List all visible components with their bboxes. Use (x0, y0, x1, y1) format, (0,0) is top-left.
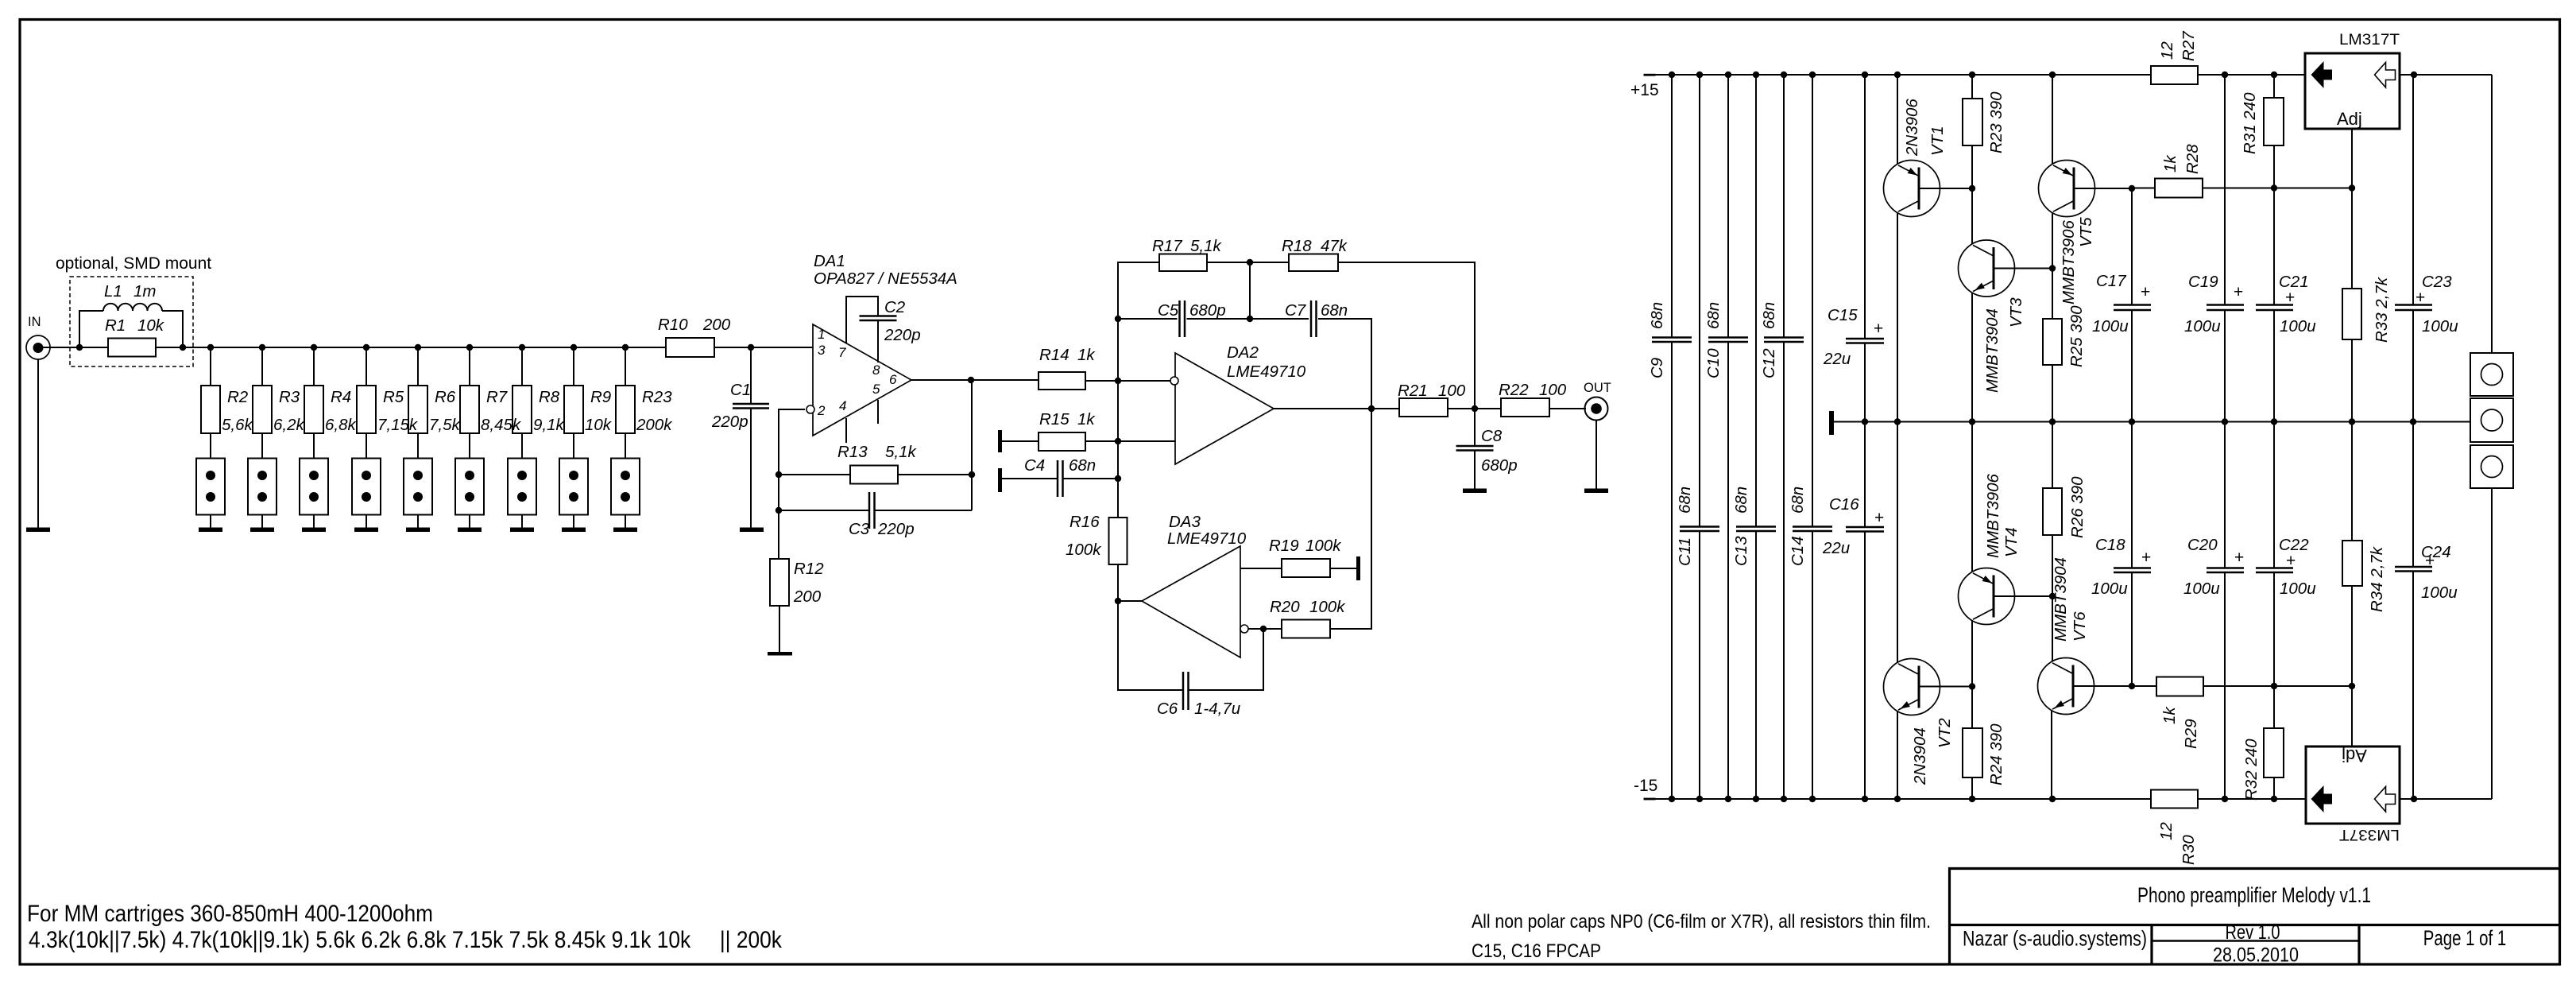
node +15 rail (2222, 72, 2228, 78)
svg-text:100u: 100u (2280, 317, 2316, 335)
node R4 top (311, 344, 317, 351)
svg-text:+: + (2415, 289, 2425, 307)
capacitor C18 (2131, 422, 2133, 568)
svg-text:R20: R20 (1270, 598, 1300, 616)
svg-text:R27: R27 (2180, 30, 2198, 61)
svg-text:C5: C5 (1158, 301, 1179, 320)
svg-text:R22: R22 (1499, 381, 1529, 399)
resistor R6 (408, 386, 427, 433)
node L1 right (180, 344, 186, 351)
wire R2 top lead (210, 347, 211, 386)
op-amp DA1 (813, 324, 911, 436)
svg-text:100u: 100u (2183, 580, 2220, 598)
svg-text:+: + (1874, 320, 1883, 338)
node R17 right (1247, 259, 1253, 266)
wire +15 rail (1644, 74, 1656, 76)
svg-text:Page 1 of 1: Page 1 of 1 (2423, 926, 2507, 950)
node mid rail (2222, 418, 2228, 425)
svg-text:+: + (1874, 509, 1884, 527)
svg-text:R7: R7 (486, 388, 509, 406)
node DA1 output (968, 377, 974, 383)
wire R5 top lead (366, 347, 367, 386)
node -15 rail (1809, 796, 1816, 802)
wire DA1 pin4 stub (845, 418, 847, 443)
node R13 right (969, 471, 975, 478)
node +15 rail (1969, 72, 1975, 78)
node C4 right (1115, 475, 1121, 482)
wire R9 to jumper (573, 433, 574, 458)
resistor R23 (390) (1971, 75, 1973, 99)
node VT1 base / R23 (1969, 185, 1975, 192)
resistor R21 (1399, 398, 1448, 417)
resistor R15 (1002, 440, 1039, 442)
node R7 top (466, 344, 473, 351)
svg-text:DA1: DA1 (814, 252, 845, 270)
wire LM317 Adj (2351, 129, 2353, 289)
capacitor C17 (2131, 188, 2133, 305)
node VT5 base / R28 (2129, 185, 2135, 192)
wire R3 top lead (261, 347, 263, 386)
node -15 rail (1725, 796, 1731, 802)
svg-text:R12: R12 (794, 560, 824, 578)
ground (IN) (26, 528, 50, 533)
svg-text:R2: R2 (227, 388, 249, 406)
node C1 (748, 344, 754, 351)
svg-text:OUT: OUT (1584, 381, 1611, 395)
svg-text:-15: -15 (1634, 777, 1657, 795)
wire jumper J1 to ground (210, 515, 211, 529)
node mid rail (2271, 418, 2277, 425)
svg-text:C17: C17 (2096, 272, 2127, 290)
resistor R10 (666, 338, 714, 357)
wire R23 to jumper (625, 433, 626, 458)
svg-text:R25 390: R25 390 (2067, 305, 2086, 367)
svg-text:R5: R5 (383, 388, 404, 406)
node +15 rail (1725, 72, 1731, 78)
resistor R8 (512, 386, 532, 433)
node R15 right (1115, 438, 1121, 444)
resistor R26 (390) (2052, 422, 2053, 489)
svg-text:100u: 100u (2422, 317, 2458, 335)
svg-text:100u: 100u (2421, 584, 2458, 602)
wire VT1 collector-emitter column (1897, 75, 1898, 165)
wire R8 top lead (521, 347, 523, 386)
capacitor C1 (750, 347, 752, 404)
wire R3 to jumper (261, 433, 263, 458)
svg-text:R4: R4 (331, 388, 351, 406)
svg-text:100u: 100u (2184, 317, 2221, 335)
svg-text:R19: R19 (1269, 537, 1299, 555)
svg-text:1-4,7u: 1-4,7u (1194, 700, 1240, 718)
svg-text:R10: R10 (658, 316, 688, 334)
svg-text:C2: C2 (884, 298, 906, 316)
wire jumper J9 to ground (625, 515, 626, 529)
svg-text:C6: C6 (1157, 700, 1178, 718)
wire C5/R17 junction vertical (1249, 262, 1251, 319)
svg-text:2N3906: 2N3906 (1903, 99, 1921, 157)
resistor R32 (240) (2273, 686, 2275, 728)
ground (R8) (510, 528, 534, 533)
svg-text:1k: 1k (1077, 410, 1096, 428)
svg-text:C9: C9 (1648, 358, 1666, 378)
node -15 rail (2049, 796, 2056, 802)
svg-text:Nazar (s-audio.systems): Nazar (s-audio.systems) (1963, 927, 2147, 951)
wire VT4 emitter down (1971, 621, 1973, 729)
svg-text:R29: R29 (2182, 719, 2200, 749)
svg-text:MMBT3906: MMBT3906 (2060, 219, 2078, 304)
capacitor C10 (1727, 75, 1729, 338)
svg-text:7: 7 (838, 345, 846, 360)
resistor R3 (253, 386, 272, 433)
wire main bus R1 to R10 (156, 347, 666, 348)
node VT4 base (2049, 593, 2056, 599)
ground (R7) (458, 528, 482, 533)
svg-text:680p: 680p (1481, 456, 1518, 475)
wire feedback left vertical (778, 409, 779, 559)
transistor VT4 (1959, 568, 2015, 625)
wire VT4 column (1971, 422, 1973, 572)
svg-text:R23: R23 (642, 388, 672, 406)
node R8 top (519, 344, 525, 351)
wire R23 to VT3 (1971, 145, 1973, 244)
node VT3 base (2049, 265, 2056, 271)
svg-text:Adj: Adj (2342, 746, 2367, 766)
ground (R5) (354, 528, 378, 533)
wire R29 to Adj net (2203, 685, 2352, 687)
svg-text:OPA827 / NE5534A: OPA827 / NE5534A (814, 269, 957, 288)
svg-text:1: 1 (818, 327, 825, 342)
capacitor C5 (1118, 318, 1178, 320)
op-amp DA3 (1142, 546, 1240, 657)
op-amp DA2 (1175, 353, 1274, 464)
svg-text:680p: 680p (1189, 301, 1226, 320)
wire VT1 base (1919, 188, 1972, 189)
svg-text:68n: 68n (1069, 456, 1096, 475)
svg-text:2N3904: 2N3904 (1911, 727, 1929, 785)
wire R34 to LM337 Adj (2351, 586, 2353, 746)
resistor R34 (2,7k) (2351, 422, 2353, 541)
node -15 rail (2271, 796, 2277, 802)
terminal bar C4 (998, 468, 1002, 492)
wire R5 to jumper (366, 433, 367, 458)
svg-text:100: 100 (1539, 381, 1567, 399)
wire DA1 pin7 up (845, 297, 847, 343)
svg-text:For MM cartriges 360-850mH 400: For MM cartriges 360-850mH 400-1200ohm (27, 901, 433, 927)
svg-text:5,1k: 5,1k (1190, 237, 1222, 255)
wire jumper J3 to ground (313, 515, 315, 529)
svg-text:C23: C23 (2422, 273, 2452, 291)
svg-text:100k: 100k (1309, 598, 1346, 616)
svg-text:VT3: VT3 (2007, 297, 2025, 328)
resistor R20 (1282, 620, 1330, 638)
svg-text:R30: R30 (2180, 835, 2198, 865)
ground (R9) (562, 528, 586, 533)
wire jumper J5 to ground (417, 515, 419, 529)
DA3 inverting input circle (1240, 625, 1248, 633)
svg-text:4.3k(10k||7.5k) 4.7k(10k||9.1k: 4.3k(10k||7.5k) 4.7k(10k||9.1k) 5.6k 6.2… (29, 927, 783, 953)
wire main input bus (40, 347, 108, 348)
wire VT6 emitter to -15 (2051, 711, 2052, 800)
node R3 top (259, 344, 265, 351)
node +15 rail (1862, 72, 1868, 78)
svg-text:+: + (2141, 549, 2151, 567)
svg-text:1m: 1m (133, 282, 156, 301)
node +15 rail (1669, 72, 1675, 78)
wire L1 left leg (79, 311, 80, 347)
node R2 top (207, 344, 214, 351)
wire R12 to ground (779, 606, 780, 652)
node mid rail (2129, 418, 2135, 425)
wire DA3 top input to R19 (1240, 568, 1282, 569)
capacitor C7 (1250, 318, 1309, 320)
wire VT6 base (2073, 685, 2132, 687)
svg-text:LME49710: LME49710 (1227, 363, 1306, 381)
svg-text:6: 6 (889, 372, 897, 387)
node C5 right (1247, 316, 1253, 322)
svg-text:+: + (2234, 549, 2244, 567)
wire R24 to -15 (1971, 777, 1973, 799)
wire R9 top lead (573, 347, 574, 386)
node Adj lower (2349, 683, 2355, 689)
svg-text:C18: C18 (2095, 536, 2125, 554)
svg-text:R32 240: R32 240 (2242, 739, 2261, 801)
node DA2 output (1368, 405, 1375, 412)
svg-text:220p: 220p (884, 326, 921, 344)
svg-text:C10: C10 (1704, 348, 1723, 378)
svg-text:R28: R28 (2183, 144, 2202, 174)
node -15 rail (1669, 796, 1675, 802)
wire main bus right of R10 (714, 347, 813, 348)
svg-text:22u: 22u (1823, 350, 1851, 368)
svg-text:R18: R18 (1282, 237, 1312, 255)
resistor R17 (1159, 254, 1207, 272)
node -15 rail (1862, 796, 1868, 802)
svg-text:C1: C1 (730, 381, 751, 399)
svg-text:C19: C19 (2188, 273, 2218, 291)
svg-text:DA2: DA2 (1227, 343, 1259, 362)
jumper J3 (300, 459, 328, 515)
svg-text:100: 100 (1438, 382, 1466, 400)
svg-text:10k: 10k (585, 416, 613, 434)
svg-text:C11: C11 (1676, 537, 1694, 566)
svg-text:68n: 68n (1704, 302, 1723, 329)
svg-text:68n: 68n (1760, 302, 1778, 329)
node mid rail (2410, 418, 2416, 425)
node DA3 output (1115, 598, 1121, 604)
resistor R18 (1289, 254, 1338, 272)
wire R28 to Adj net (2203, 188, 2352, 189)
wire LM317 out to right (2400, 74, 2492, 76)
wire jumper J4 to ground (366, 515, 367, 529)
wire VT4 base (1994, 595, 2052, 597)
wire OUT to ground (1595, 421, 1597, 489)
wire feedback right vertical (971, 380, 973, 510)
wire center vertical net (1117, 262, 1119, 518)
svg-text:Adj: Adj (2337, 109, 2362, 129)
svg-text:47k: 47k (1321, 237, 1348, 255)
svg-text:10k: 10k (137, 316, 165, 335)
DA1 inverting input circle (806, 405, 814, 413)
capacitor C2 (877, 296, 879, 316)
node L1 left (76, 344, 83, 351)
svg-text:DA3: DA3 (1169, 513, 1201, 531)
node -15 rail (1969, 796, 1975, 802)
svg-text:VT1: VT1 (1928, 126, 1947, 156)
node +15 rail (2271, 72, 2277, 78)
svg-text:+: + (2286, 552, 2296, 570)
terminal bar R15 (998, 430, 1002, 452)
svg-text:C14: C14 (1789, 536, 1807, 566)
capacitor C3 (779, 510, 869, 511)
jumper J8 (559, 459, 588, 515)
wire R14 to DA2 (1085, 380, 1170, 382)
node C3 left (776, 507, 782, 514)
capacitor C23 (2412, 75, 2414, 305)
resistor R5 (357, 386, 376, 433)
resistor R16 (1109, 518, 1127, 564)
wire jumper J2 to ground (261, 515, 263, 529)
wire DA1 output (911, 379, 1039, 381)
wire VT5 base (2074, 188, 2132, 189)
node VT2 base (1969, 683, 1975, 689)
resistor R1 (108, 339, 156, 357)
svg-text:R1: R1 (105, 316, 126, 335)
resistor R14 (1039, 372, 1085, 390)
svg-text:100k: 100k (1066, 541, 1102, 559)
svg-text:68n: 68n (1676, 487, 1694, 514)
resistor R23 (616, 386, 635, 433)
resistor R25 (390) (2043, 319, 2062, 365)
resistor R12 (770, 559, 789, 606)
svg-text:12: 12 (2158, 41, 2176, 60)
jumper J1 (196, 459, 225, 515)
wire R16 to DA3 node (1117, 564, 1119, 601)
node -15 rail (2222, 796, 2228, 802)
svg-text:R16: R16 (1069, 513, 1100, 531)
svg-text:4: 4 (839, 398, 846, 413)
transistor VT6 (2038, 658, 2094, 715)
resistor R2 (201, 386, 220, 433)
svg-text:6,8k: 6,8k (325, 416, 357, 434)
wire DA3 inv input to R20 (1248, 628, 1282, 630)
wire R22 to OUT (1549, 408, 1586, 409)
node mid rail (1862, 418, 1868, 425)
node -15 rail (1894, 796, 1901, 802)
svg-text:R6: R6 (435, 388, 456, 406)
wire VT2 base (1919, 686, 1972, 688)
resistor R28 (1k) (2132, 188, 2155, 189)
node R32 top (2271, 683, 2277, 689)
svg-text:All non polar caps NP0 (C6-fil: All non polar caps NP0 (C6-film or X7R),… (1472, 911, 1931, 933)
wire L1 right leg (162, 310, 184, 312)
capacitor C20 (2224, 422, 2226, 568)
wire VT5 emitter to R25 (2052, 213, 2053, 320)
svg-text:200: 200 (702, 316, 731, 334)
capacitor C4 (1002, 478, 1058, 479)
wire R7 top lead (469, 347, 470, 386)
jumper J9 (611, 459, 640, 515)
svg-text:2: 2 (817, 403, 826, 418)
resistor R9 (564, 386, 583, 433)
svg-text:R15: R15 (1039, 410, 1069, 428)
node R31 bottom (2271, 184, 2277, 191)
svg-text:5: 5 (872, 382, 880, 397)
node VT6 base / R29 (2129, 683, 2135, 689)
node +15 rail (2049, 72, 2056, 78)
node R23 top (622, 344, 629, 351)
node +15 rail (1781, 72, 1787, 78)
node mid rail (1969, 418, 1975, 425)
svg-text:R33 2,7k: R33 2,7k (2373, 276, 2391, 343)
resistor R4 (304, 386, 323, 433)
wire VT3 base (1994, 268, 2052, 269)
svg-text:VT4: VT4 (2002, 527, 2021, 557)
svg-text:+: + (2141, 283, 2150, 301)
wire R2 to jumper (210, 433, 211, 458)
transistor VT5 (2039, 161, 2095, 217)
svg-text:R17: R17 (1152, 237, 1183, 255)
svg-text:220p: 220p (877, 520, 915, 538)
ground (R6) (406, 528, 430, 533)
wire VT5 column top (2052, 75, 2053, 165)
wire IN to ground (37, 359, 39, 528)
svg-text:MMBT3904: MMBT3904 (1983, 308, 2002, 393)
svg-text:VT5: VT5 (2077, 217, 2095, 247)
svg-text:R13: R13 (837, 443, 868, 461)
capacitor C6 (1263, 629, 1264, 691)
svg-text:200k: 200k (636, 416, 673, 434)
resistor R22 (1501, 398, 1549, 417)
svg-text:68n: 68n (1732, 487, 1750, 514)
wire C7 down to output (1371, 319, 1372, 629)
capacitor C13 (1755, 75, 1757, 527)
svg-text:R8: R8 (539, 388, 560, 406)
title block frame (1948, 867, 2560, 870)
svg-text:1k: 1k (2161, 154, 2180, 173)
ground (C1) (740, 528, 764, 533)
svg-text:8: 8 (872, 363, 880, 378)
node C23 top (2411, 72, 2417, 78)
svg-text:C15, C16 FPCAP: C15, C16 FPCAP (1472, 940, 1601, 962)
svg-text:optional, SMD mount: optional, SMD mount (56, 254, 211, 273)
ground (R12) (768, 652, 792, 656)
svg-text:5,1k: 5,1k (885, 443, 917, 461)
svg-text:100k: 100k (1305, 537, 1342, 555)
resistor R30 (12) (2151, 790, 2198, 808)
svg-text:MMBT3904: MMBT3904 (2052, 557, 2070, 642)
node R6 top (415, 344, 421, 351)
resistor R27 (12) (2151, 66, 2198, 84)
capacitor C15 (1864, 75, 1866, 339)
svg-text:LM317T: LM317T (2339, 32, 2400, 48)
node mid rail (2349, 418, 2355, 425)
jumper J7 (508, 459, 536, 515)
wire right vertical +15 to connector (2491, 75, 2493, 353)
svg-text:+: + (2425, 552, 2435, 570)
svg-text:7,15k: 7,15k (377, 416, 419, 434)
node -15 rail (1753, 796, 1759, 802)
svg-text:C7: C7 (1285, 301, 1307, 320)
svg-text:C8: C8 (1481, 427, 1503, 445)
node C8 top (1472, 405, 1478, 412)
capacitor C9 (1671, 75, 1673, 338)
node R13 left (776, 471, 782, 478)
svg-text:R26 390: R26 390 (2068, 476, 2087, 538)
svg-text:VT2: VT2 (1936, 718, 1954, 748)
connector output -15 (2470, 445, 2513, 488)
node R9 top (571, 344, 577, 351)
jumper J5 (404, 459, 432, 515)
